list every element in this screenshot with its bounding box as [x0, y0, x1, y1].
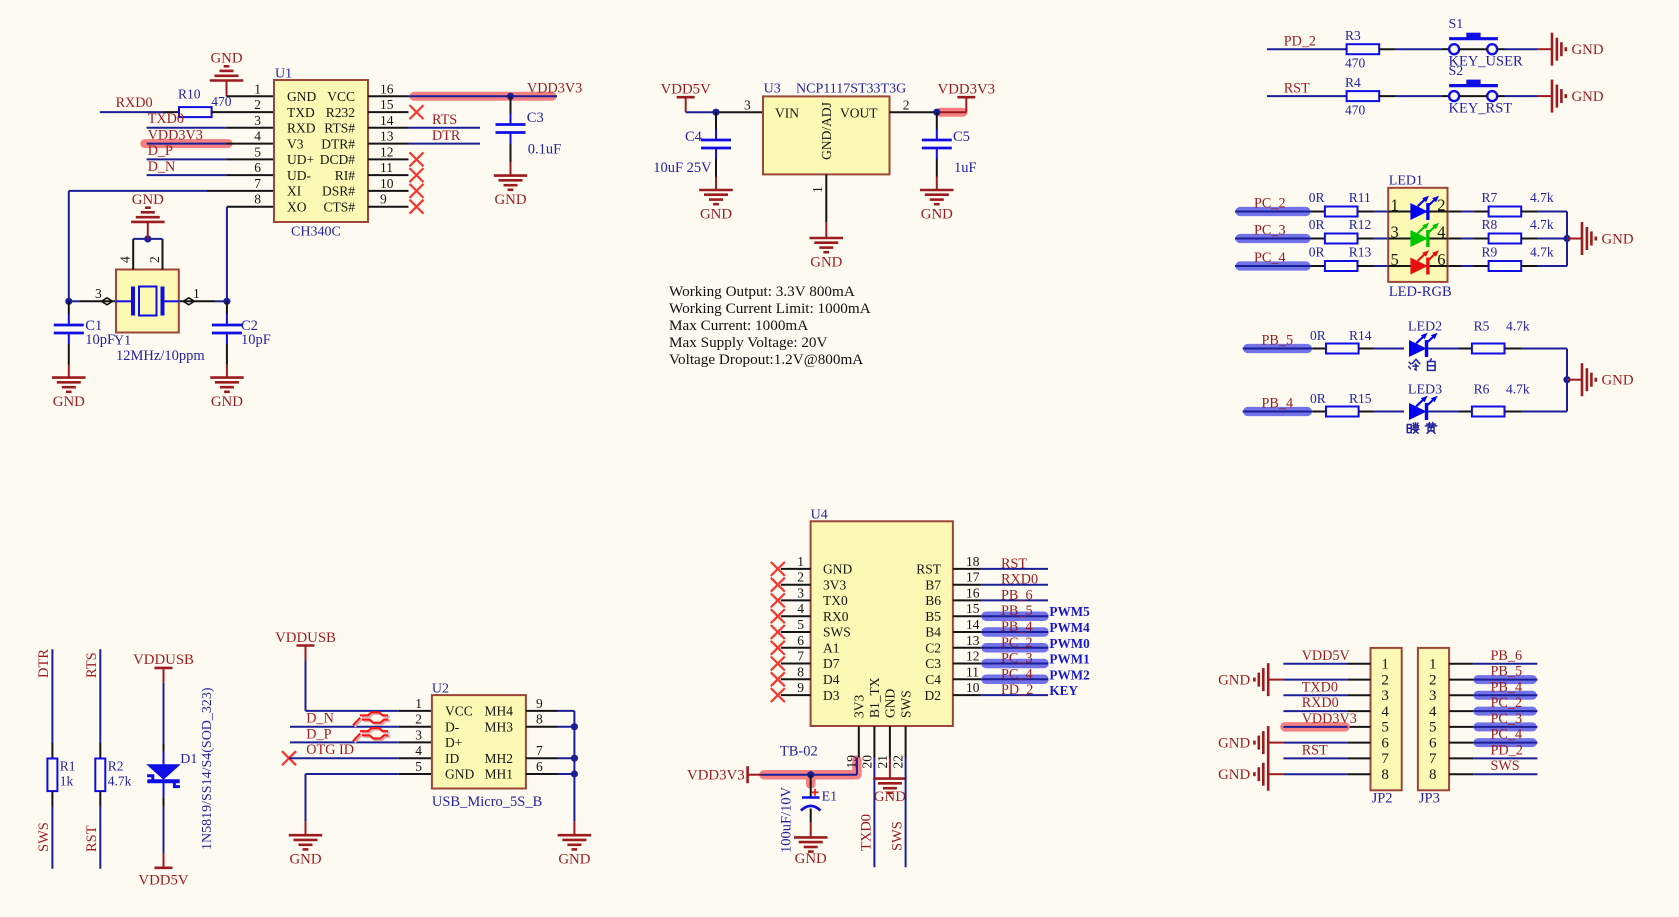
net label DTR vertical — [36, 649, 52, 678]
wire U4 pin21 to GND — [889, 758, 891, 779]
svg-text:D_N: D_N — [306, 711, 334, 727]
svg-text:PC_2: PC_2 — [1491, 695, 1523, 711]
wire net RST at U4 — [981, 568, 1048, 570]
svg-text:GND: GND — [287, 89, 316, 104]
svg-text:C4: C4 — [925, 672, 941, 687]
svg-text:GND: GND — [1218, 672, 1250, 688]
svg-text:R15: R15 — [1349, 391, 1372, 406]
svg-text:SWS: SWS — [1491, 758, 1520, 774]
highlight net PB_4 at JP3 — [1478, 691, 1532, 700]
no-connect X OTG_ID — [282, 751, 296, 765]
wire LED bus to GND — [1567, 379, 1582, 381]
capacitor C4 — [653, 112, 731, 176]
connector JP2 body — [1348, 648, 1402, 790]
ground left of JP2 pin6 — [1218, 726, 1268, 759]
svg-text:RTS: RTS — [84, 652, 100, 678]
resistor R9 — [1482, 245, 1554, 271]
svg-text:R3: R3 — [1345, 28, 1361, 43]
node junction crystal top — [144, 235, 151, 242]
wire RTS to R2 — [99, 649, 101, 758]
node junction LED bus — [1563, 376, 1570, 383]
svg-text:DTR: DTR — [36, 649, 52, 678]
net label PD_2 at JP3 — [1491, 742, 1523, 758]
net label D_N — [148, 159, 176, 175]
ground below C3 — [494, 162, 527, 208]
net label TXD0 vertical — [859, 814, 875, 851]
svg-text:SWS: SWS — [898, 690, 913, 718]
highlight net PC_2 — [1240, 207, 1306, 216]
svg-text:2: 2 — [147, 256, 162, 263]
svg-text:E1: E1 — [822, 790, 838, 805]
svg-text:VDDUSB: VDDUSB — [133, 652, 194, 668]
svg-text:RI#: RI# — [335, 168, 356, 183]
svg-text:470: 470 — [1345, 103, 1366, 118]
svg-text:1uF: 1uF — [954, 160, 977, 176]
net label PC_3 at JP3 — [1491, 711, 1523, 727]
svg-text:5: 5 — [797, 617, 804, 632]
wire LED2 LED3 GND bus — [1566, 349, 1568, 412]
svg-text:VCC: VCC — [327, 89, 355, 104]
wire U4 pin22 SWS — [905, 758, 907, 868]
svg-text:R14: R14 — [1349, 328, 1372, 343]
wire net PB_5 at U4 — [981, 611, 1048, 621]
svg-text:2: 2 — [1429, 672, 1437, 688]
svg-text:5: 5 — [1391, 250, 1399, 269]
net label PB_5 at JP3 — [1491, 664, 1523, 680]
svg-text:2: 2 — [415, 712, 422, 727]
wire LED3 to R6 — [1428, 411, 1472, 413]
svg-text:JP3: JP3 — [1419, 791, 1440, 807]
wire VDD3V3 stub — [937, 111, 967, 113]
wire JP3 pin5 — [1473, 726, 1537, 728]
power flag VDD5V — [661, 82, 711, 113]
svg-text:3V3: 3V3 — [852, 695, 867, 718]
switch S1 KEY_USER — [1449, 17, 1523, 69]
value 100uF/10V vertical — [779, 786, 795, 853]
svg-text:100uF/10V: 100uF/10V — [779, 786, 795, 853]
resistor R3 — [1345, 28, 1379, 71]
svg-text:PC_2: PC_2 — [1001, 635, 1033, 651]
highlight VDD3V3 at U4 pin19 — [764, 760, 857, 784]
svg-text:2: 2 — [1437, 196, 1445, 215]
wire LED1 to R9 — [1446, 265, 1488, 267]
svg-text:D4: D4 — [823, 672, 840, 687]
ground right of LED2 LED3 — [1582, 363, 1634, 396]
svg-text:GND: GND — [210, 51, 242, 67]
highlight VDD3V3 net at U1 pin16 — [414, 92, 552, 101]
svg-text:U3: U3 — [764, 82, 781, 97]
net label TXD0 at JP2 — [1302, 679, 1338, 695]
svg-text:RTS#: RTS# — [324, 121, 355, 136]
svg-text:TXD0: TXD0 — [1302, 679, 1338, 695]
svg-text:Voltage Dropout:1.2V@800mA: Voltage Dropout:1.2V@800mA — [669, 351, 863, 368]
wire PD_2 to R3 — [1267, 48, 1347, 50]
svg-text:KEY: KEY — [1049, 683, 1078, 698]
svg-text:R8: R8 — [1482, 217, 1498, 232]
svg-text:RST: RST — [84, 825, 100, 852]
svg-text:12MHz/10ppm: 12MHz/10ppm — [116, 348, 205, 364]
svg-text:2: 2 — [797, 570, 804, 585]
svg-text:SWS: SWS — [823, 625, 851, 640]
svg-text:9: 9 — [380, 192, 387, 207]
svg-text:PC_3: PC_3 — [1001, 651, 1033, 667]
svg-text:8: 8 — [1381, 767, 1389, 783]
svg-text:D2: D2 — [925, 688, 942, 703]
svg-text:LED3: LED3 — [1408, 383, 1442, 398]
wire PC_4 to R13 — [1235, 265, 1325, 267]
svg-text:16: 16 — [966, 585, 980, 600]
svg-text:R10: R10 — [178, 87, 201, 102]
svg-text:GND: GND — [1602, 373, 1634, 389]
svg-text:LED1: LED1 — [1389, 174, 1423, 189]
svg-text:7: 7 — [1381, 751, 1389, 767]
svg-text:Y1: Y1 — [114, 334, 131, 349]
svg-text:470: 470 — [1345, 56, 1366, 71]
wire JP3 pin8 — [1473, 773, 1537, 775]
net label KEY — [1049, 683, 1078, 698]
svg-text:KEY_RST: KEY_RST — [1449, 100, 1513, 116]
svg-text:B5: B5 — [925, 609, 941, 624]
net label PC_3 — [1254, 223, 1286, 239]
svg-text:D-: D- — [445, 719, 460, 734]
ground right of S1 — [1552, 33, 1604, 66]
svg-text:C4: C4 — [685, 129, 703, 145]
svg-text:RXD: RXD — [287, 121, 316, 136]
svg-text:PC_4: PC_4 — [1254, 250, 1286, 266]
pin 1 label of U3 — [810, 186, 825, 193]
svg-text:7: 7 — [254, 176, 261, 191]
wire R9 to bus — [1521, 265, 1567, 267]
svg-text:R12: R12 — [1349, 217, 1372, 232]
svg-text:2: 2 — [254, 97, 261, 112]
svg-text:1N5819/SS14/S4(SOD_323): 1N5819/SS14/S4(SOD_323) — [200, 687, 215, 850]
svg-text:4: 4 — [797, 601, 804, 616]
svg-text:10: 10 — [966, 680, 980, 695]
svg-text:3: 3 — [95, 286, 102, 301]
ground GND above U1 pin 1 — [210, 51, 243, 97]
svg-text:DTR#: DTR# — [321, 136, 355, 151]
svg-text:RXD0: RXD0 — [116, 95, 153, 111]
svg-text:PC_2: PC_2 — [1254, 196, 1286, 212]
svg-text:TXD0: TXD0 — [859, 814, 875, 851]
svg-text:5: 5 — [415, 759, 422, 774]
wire R5 to bus — [1505, 348, 1567, 350]
ground below C1 — [52, 365, 86, 411]
svg-text:XI: XI — [287, 184, 302, 199]
svg-text:R13: R13 — [1349, 245, 1372, 260]
svg-text:20: 20 — [859, 755, 874, 769]
svg-text:LED2: LED2 — [1408, 320, 1442, 335]
svg-text:VIN: VIN — [775, 105, 799, 120]
wire PC_2 to R11 — [1235, 211, 1325, 213]
resistor R2 — [95, 759, 131, 792]
svg-text:6: 6 — [1381, 735, 1389, 751]
svg-text:4: 4 — [1381, 704, 1389, 720]
wire RST to R4 — [1267, 95, 1347, 97]
svg-text:D3: D3 — [823, 688, 840, 703]
wire net PD_2 at U4 — [981, 694, 1048, 696]
svg-text:14: 14 — [380, 113, 394, 128]
net label RXD0 — [116, 95, 153, 111]
resistor R12 — [1309, 217, 1372, 243]
svg-text:VDD5V: VDD5V — [661, 82, 711, 98]
svg-text:3: 3 — [744, 98, 751, 113]
svg-text:RXD0: RXD0 — [1302, 695, 1339, 711]
node junction U2 MH3 — [571, 723, 578, 730]
value 1N5819/SS14/S4(SOD_323) — [200, 687, 215, 850]
svg-text:RST: RST — [1302, 742, 1328, 758]
wire JP2 pin4 — [1283, 710, 1347, 712]
pin 4 label of Y1 — [118, 256, 133, 263]
net label D_N at U2 — [306, 711, 334, 727]
svg-text:C3: C3 — [527, 110, 544, 126]
svg-text:Max Current: 1000mA: Max Current: 1000mA — [669, 317, 808, 334]
no-connect X U4 pin5 — [771, 625, 785, 639]
svg-text:PWM4: PWM4 — [1049, 620, 1090, 635]
net label RST — [1284, 80, 1310, 96]
svg-text:PB_6: PB_6 — [1491, 648, 1523, 664]
svg-text:9: 9 — [797, 680, 804, 695]
ground below C4 — [699, 177, 733, 223]
wire S2 to GND — [1497, 95, 1552, 97]
resistor R10 — [178, 87, 232, 118]
LED LED2 — [1408, 320, 1442, 371]
net label RST at JP2 — [1302, 742, 1328, 758]
highlight net PC_3 at JP3 — [1478, 722, 1532, 731]
wire LED2 to R5 — [1428, 348, 1472, 350]
svg-text:PD_2: PD_2 — [1284, 34, 1316, 50]
pin 1 label of Y1 — [193, 286, 200, 301]
svg-text:17: 17 — [966, 570, 980, 585]
svg-text:4.7k: 4.7k — [1506, 319, 1530, 334]
svg-text:R7: R7 — [1482, 190, 1498, 205]
net label PC_2 — [1254, 196, 1286, 212]
svg-text:TXD: TXD — [287, 105, 315, 120]
svg-text:4: 4 — [254, 129, 261, 144]
svg-text:0R: 0R — [1309, 245, 1325, 260]
svg-text:D_P: D_P — [148, 143, 173, 159]
wire R7 to bus — [1521, 211, 1567, 213]
highlight net PC_3 — [1240, 234, 1306, 243]
svg-text:Max Supply Voltage: 20V: Max Supply Voltage: 20V — [669, 334, 828, 351]
svg-text:PB_4: PB_4 — [1262, 396, 1294, 412]
wire R2 to RST — [99, 791, 101, 869]
ground GND above crystal — [131, 192, 165, 239]
wire JP3 pin1 — [1473, 663, 1537, 665]
svg-text:11: 11 — [966, 664, 979, 679]
net label VDD3V3 at JP2 — [1302, 711, 1357, 727]
no-connect X U4 pin8 — [771, 672, 785, 686]
net label DTR at U1 pin13 — [432, 128, 461, 144]
svg-text:0R: 0R — [1309, 217, 1325, 232]
resistor R8 — [1482, 217, 1554, 243]
svg-text:Working Output: 3.3V 800mA: Working Output: 3.3V 800mA — [669, 283, 855, 300]
wire net RXD0 at U4 — [981, 584, 1048, 586]
svg-text:12: 12 — [380, 144, 394, 159]
svg-text:B4: B4 — [925, 625, 941, 640]
wire U2 pin5 to GND — [306, 774, 432, 835]
wire PC_3 to R12 — [1235, 238, 1325, 240]
crystal Y1 body — [116, 270, 179, 333]
svg-text:PC_4: PC_4 — [1001, 666, 1033, 682]
pin 2 label of U3 — [903, 98, 910, 113]
no-connect X U1 pin10 — [410, 184, 424, 198]
svg-text:R2: R2 — [108, 759, 124, 774]
svg-text:VDD3V3: VDD3V3 — [527, 81, 582, 97]
svg-text:PB_5: PB_5 — [1262, 333, 1294, 349]
wire JP2 pin3 — [1283, 694, 1347, 696]
svg-text:GND: GND — [1572, 89, 1604, 105]
wire R3 to S1 — [1379, 48, 1449, 50]
svg-text:D1: D1 — [180, 752, 197, 767]
svg-text:DTR: DTR — [432, 128, 461, 144]
net label PC_4 — [1254, 250, 1286, 266]
svg-text:OTG ID: OTG ID — [306, 742, 354, 758]
svg-text:PC_4: PC_4 — [1491, 727, 1523, 743]
highlight net PC_2 at JP3 — [1478, 707, 1532, 716]
svg-text:R5: R5 — [1474, 319, 1490, 334]
svg-text:RST: RST — [916, 562, 942, 577]
ground below E1 — [794, 822, 828, 867]
wire JP3 pin6 — [1473, 742, 1537, 744]
net label PC_4 at JP3 — [1491, 727, 1523, 743]
node junction U2 MH1 — [571, 770, 578, 777]
svg-text:3: 3 — [254, 113, 261, 128]
svg-text:GND: GND — [53, 394, 85, 410]
net label PB_4 at U4 — [1001, 619, 1033, 635]
svg-text:16: 16 — [380, 81, 394, 96]
svg-text:R6: R6 — [1474, 382, 1490, 397]
wire crystal top pins join — [133, 238, 162, 240]
svg-text:0.1uF: 0.1uF — [528, 142, 561, 158]
capacitor C2 — [212, 301, 271, 364]
svg-text:4.7k: 4.7k — [108, 774, 132, 789]
net label VDD5V at JP2 — [1302, 648, 1351, 664]
svg-text:GND: GND — [1218, 767, 1250, 783]
connector JP3 body — [1418, 648, 1473, 790]
svg-text:GND: GND — [874, 789, 906, 805]
wire PB_4 to R15 — [1243, 411, 1326, 413]
net label PWM5 — [1049, 604, 1090, 619]
svg-text:6: 6 — [1429, 735, 1437, 751]
svg-text:1: 1 — [415, 696, 422, 711]
svg-text:9: 9 — [536, 696, 543, 711]
svg-text:PB_5: PB_5 — [1491, 664, 1523, 680]
ground below C5 — [920, 177, 954, 223]
pin 3 label of U3 — [744, 98, 751, 113]
svg-text:1: 1 — [254, 81, 261, 96]
svg-text:PD_2: PD_2 — [1001, 682, 1033, 698]
svg-text:GND: GND — [823, 562, 852, 577]
wire net PB_6 at U4 — [981, 599, 1048, 601]
ground below U4 pin21 — [873, 779, 907, 805]
power flag VDD3V3 at U3 — [938, 82, 996, 113]
svg-text:ID: ID — [445, 751, 459, 766]
net label PB_5 at U4 — [1001, 603, 1033, 619]
svg-text:RST: RST — [1001, 556, 1027, 572]
svg-text:13: 13 — [966, 633, 980, 648]
svg-text:VDD3V3: VDD3V3 — [938, 82, 996, 98]
svg-text:C5: C5 — [953, 129, 970, 145]
differential pair marker D_N — [353, 712, 390, 727]
wire U2 MH pins to bus — [557, 711, 574, 774]
net label PB_4 at JP3 — [1491, 679, 1523, 695]
resistor R7 — [1482, 190, 1554, 216]
svg-text:NCP1117ST33T3G: NCP1117ST33T3G — [796, 82, 906, 97]
no-connect X U4 pin7 — [771, 657, 785, 671]
svg-text:GND: GND — [883, 689, 898, 718]
pin 3 label of Y1 — [95, 286, 102, 301]
svg-text:21: 21 — [875, 755, 890, 769]
svg-text:VDD5V: VDD5V — [138, 873, 188, 889]
label JP2 — [1372, 791, 1393, 807]
wire JP2 pin5 — [1283, 726, 1347, 728]
ground below U2 right — [558, 835, 592, 868]
wire crystal pin1 — [179, 300, 227, 302]
power flag VDDUSB at D1 — [133, 652, 194, 683]
svg-text:R9: R9 — [1482, 245, 1498, 260]
svg-text:PWM5: PWM5 — [1049, 604, 1090, 619]
wire R13 to LED1 — [1357, 265, 1387, 267]
ground left of JP2 pin8 — [1218, 758, 1268, 791]
svg-text:3V3: 3V3 — [823, 577, 846, 592]
svg-text:RTS: RTS — [432, 112, 457, 128]
no-connect X U4 pin9 — [771, 688, 785, 702]
net label PC_2 at JP3 — [1491, 695, 1523, 711]
svg-text:GND: GND — [1218, 735, 1250, 751]
svg-text:0R: 0R — [1309, 190, 1325, 205]
svg-text:1: 1 — [1429, 657, 1437, 673]
node junction U2 MH2 — [571, 755, 578, 762]
wire RTS — [409, 127, 481, 129]
svg-text:18: 18 — [966, 554, 980, 569]
svg-text:6: 6 — [1437, 250, 1445, 269]
svg-text:PC_3: PC_3 — [1254, 223, 1286, 239]
svg-text:D_N: D_N — [148, 159, 176, 175]
resistor R1 — [47, 759, 75, 792]
svg-text:GND: GND — [795, 851, 827, 867]
highlight net PB_4 — [1248, 407, 1308, 416]
svg-text:GND: GND — [700, 207, 732, 223]
wire S1 to GND — [1497, 48, 1552, 50]
svg-text:10pF: 10pF — [85, 332, 115, 348]
wire R11 to LED1 — [1357, 211, 1387, 213]
svg-text:CTS#: CTS# — [323, 199, 355, 214]
node junction at C4 — [712, 109, 719, 116]
svg-text:14: 14 — [966, 617, 980, 632]
svg-text:RX0: RX0 — [823, 609, 849, 624]
power flag VDD3V3 at U4 — [687, 766, 761, 783]
net label PD_2 — [1284, 34, 1316, 50]
svg-text:Working Current Limit: 1000mA: Working Current Limit: 1000mA — [669, 300, 871, 317]
svg-text:2: 2 — [1381, 672, 1389, 688]
LED LED3 — [1407, 383, 1442, 434]
svg-text:22: 22 — [891, 755, 906, 769]
ground left of JP2 pin2 — [1218, 663, 1268, 696]
resistor R15 — [1310, 391, 1372, 417]
svg-text:SWS: SWS — [36, 822, 52, 852]
wire JP3 pin7 — [1473, 757, 1537, 759]
net label PWM1 — [1049, 652, 1089, 667]
svg-text:GND: GND — [558, 852, 590, 868]
connector U2 USB_Micro_5S_B body — [415, 682, 557, 811]
svg-text:VOUT: VOUT — [840, 105, 878, 120]
svg-text:B1_TX: B1_TX — [867, 677, 882, 718]
net label TXD0 — [148, 111, 184, 127]
svg-text:JP2: JP2 — [1372, 791, 1393, 807]
wire net PC_3 at U4 — [981, 659, 1048, 669]
op-amp U1 CH340C chip body — [254, 67, 408, 240]
